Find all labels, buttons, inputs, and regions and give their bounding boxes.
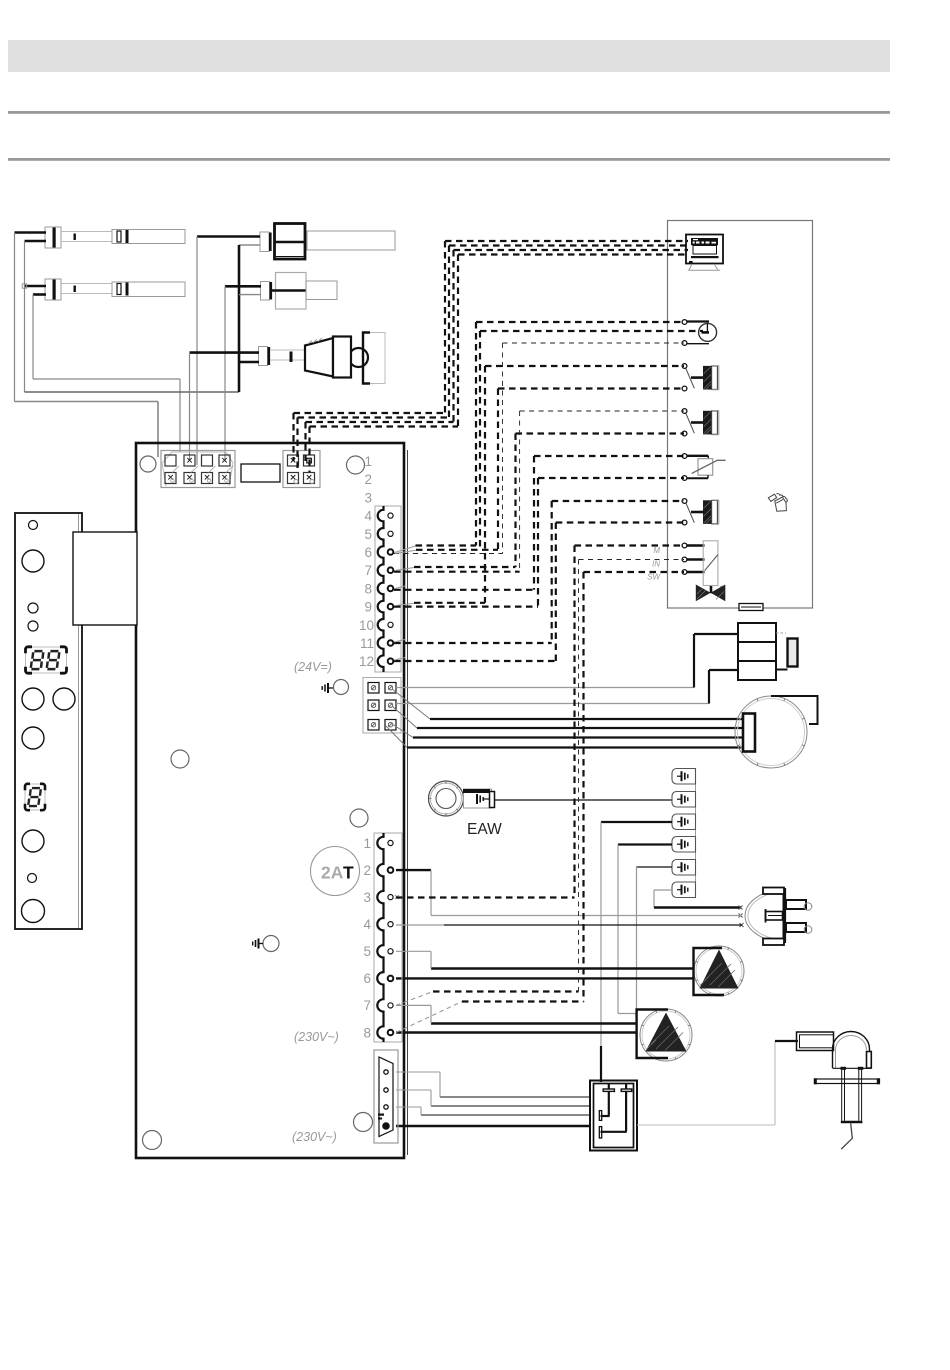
svg-text:3: 3 [364, 490, 372, 505]
svg-text:6: 6 [363, 971, 371, 986]
svg-text:9: 9 [364, 600, 372, 615]
svg-text:(24V=): (24V=) [294, 660, 332, 674]
svg-text:5: 5 [364, 527, 372, 542]
svg-text:1: 1 [364, 454, 372, 469]
svg-text:IN: IN [652, 560, 660, 569]
svg-text:1: 1 [363, 836, 371, 851]
svg-text:4: 4 [364, 509, 372, 524]
svg-text:EAW: EAW [467, 821, 502, 838]
svg-text:T: T [343, 863, 354, 883]
svg-text:2: 2 [363, 863, 371, 878]
svg-text:5: 5 [363, 944, 371, 959]
svg-text:8: 8 [363, 1025, 371, 1040]
svg-text:7: 7 [364, 563, 372, 578]
svg-text:2: 2 [364, 472, 372, 487]
svg-text:10: 10 [359, 618, 374, 633]
svg-text:2A: 2A [321, 863, 344, 883]
svg-text:12: 12 [359, 654, 374, 669]
svg-text:7: 7 [363, 998, 371, 1013]
svg-text:4: 4 [363, 917, 371, 932]
svg-text:3: 3 [363, 890, 371, 905]
svg-text:6: 6 [364, 545, 372, 560]
svg-text:(230V~): (230V~) [294, 1030, 339, 1044]
svg-text:(230V~): (230V~) [292, 1130, 337, 1144]
svg-text:SW: SW [647, 573, 661, 582]
svg-text:11: 11 [360, 636, 374, 651]
svg-text:M: M [653, 546, 660, 555]
svg-text:8: 8 [364, 581, 372, 596]
